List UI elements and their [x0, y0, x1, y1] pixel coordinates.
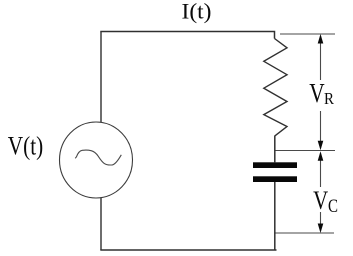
wire left lower (source - lead) [100, 198, 102, 250]
extension tick line bottom [276, 232, 335, 234]
capacitor bottom plate [253, 176, 297, 182]
voltage source V(t) circle [60, 122, 133, 198]
capacitor top plate [253, 162, 297, 168]
wire bottom (return node) [100, 249, 276, 251]
wire capacitor to bottom [274, 182, 276, 251]
svg-text:V(t): V(t) [8, 131, 43, 160]
V_R arrowhead down [318, 141, 324, 151]
V_R dimension line upper segment [320, 36, 322, 80]
svg-text:V: V [313, 186, 328, 215]
V_R arrowhead up [318, 34, 324, 44]
sine symbol inside source [75, 150, 121, 165]
wire resistor to capacitor [274, 136, 276, 162]
extension tick line top [280, 33, 335, 35]
wire left upper (source + lead) [100, 32, 102, 123]
V_R dimension line lower segment [320, 111, 322, 148]
V_C arrowhead up [318, 151, 324, 161]
V_C dimension line upper segment [320, 153, 322, 187]
wire top (node between source + and resistor) [100, 32, 274, 39]
svg-text:C: C [328, 196, 338, 217]
svg-text:V: V [309, 78, 325, 108]
V_C dimension line lower segment [320, 212, 322, 231]
extension tick line middle [276, 150, 336, 152]
svg-text:I(t): I(t) [182, 0, 212, 24]
svg-text:R: R [324, 89, 335, 108]
V_C arrowhead down [318, 224, 324, 234]
resistor R zigzag [264, 39, 287, 137]
